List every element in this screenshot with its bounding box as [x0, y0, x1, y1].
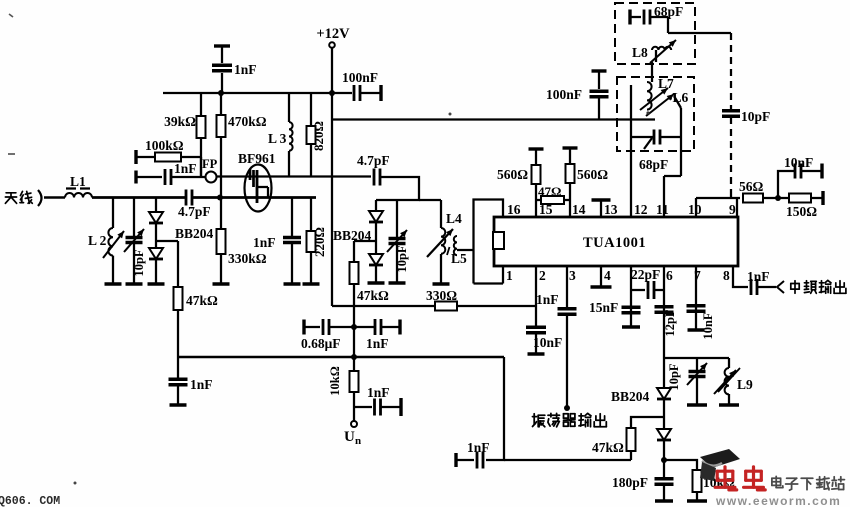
svg-text:BF961: BF961	[238, 151, 276, 166]
svg-text:1nF: 1nF	[536, 292, 559, 307]
svg-text:820Ω: 820Ω	[311, 121, 326, 151]
svg-text:10pF: 10pF	[395, 245, 409, 272]
svg-text:39kΩ: 39kΩ	[164, 114, 196, 129]
svg-text:68pF: 68pF	[639, 157, 668, 172]
svg-text:1nF: 1nF	[366, 336, 389, 351]
svg-text:4.7pF: 4.7pF	[178, 204, 211, 219]
svg-text:10kΩ: 10kΩ	[328, 366, 342, 395]
svg-text:4.7pF: 4.7pF	[357, 153, 390, 168]
svg-text:L4: L4	[446, 211, 462, 226]
svg-text:220Ω: 220Ω	[312, 227, 327, 257]
svg-text:1nF: 1nF	[747, 269, 770, 284]
svg-text:0.68μF: 0.68μF	[301, 336, 341, 351]
svg-text:8: 8	[723, 268, 730, 283]
svg-text:10pF: 10pF	[741, 109, 770, 124]
svg-text:1nF: 1nF	[467, 440, 490, 455]
svg-text:L 2: L 2	[88, 233, 107, 248]
svg-text:180pF: 180pF	[612, 475, 648, 490]
svg-text:BB204: BB204	[611, 389, 650, 404]
svg-text:4: 4	[604, 268, 611, 283]
svg-text:L 3: L 3	[268, 131, 287, 146]
svg-text:100nF: 100nF	[546, 87, 582, 102]
svg-text:9: 9	[729, 202, 736, 217]
svg-text:BB204: BB204	[175, 226, 214, 241]
svg-text:47kΩ: 47kΩ	[592, 440, 624, 455]
svg-text:TUA1001: TUA1001	[583, 235, 646, 251]
svg-text:14: 14	[572, 202, 586, 217]
svg-text:+12V: +12V	[316, 26, 350, 42]
svg-text:47kΩ: 47kΩ	[186, 293, 218, 308]
svg-text:6: 6	[666, 268, 673, 283]
svg-text:12pF: 12pF	[663, 309, 677, 336]
svg-text:2: 2	[539, 268, 546, 283]
svg-text:11: 11	[656, 202, 669, 217]
svg-text:3: 3	[569, 268, 576, 283]
svg-text:Q606. COM: Q606. COM	[0, 495, 60, 507]
svg-text:1nF: 1nF	[367, 385, 390, 400]
svg-text:22pF: 22pF	[631, 267, 660, 282]
svg-text:n: n	[355, 435, 361, 447]
svg-text:L1: L1	[70, 174, 86, 189]
svg-text:10nF: 10nF	[784, 155, 813, 170]
svg-text:1nF: 1nF	[253, 235, 276, 250]
svg-text:10pF: 10pF	[132, 249, 146, 276]
svg-text:1: 1	[506, 268, 513, 283]
svg-text:10nF: 10nF	[701, 312, 715, 339]
svg-text:10nF: 10nF	[533, 335, 562, 350]
svg-text:1nF: 1nF	[190, 377, 213, 392]
svg-text:13: 13	[604, 202, 618, 217]
svg-text:47Ω: 47Ω	[538, 184, 561, 199]
svg-text:L8: L8	[632, 45, 648, 60]
svg-text:560Ω: 560Ω	[577, 167, 608, 182]
svg-text:330Ω: 330Ω	[426, 288, 457, 303]
svg-text:1nF: 1nF	[174, 161, 197, 176]
svg-text:10pF: 10pF	[667, 363, 681, 390]
svg-text:U: U	[344, 429, 355, 445]
svg-text:68pF: 68pF	[654, 4, 683, 19]
svg-text:12: 12	[634, 202, 648, 217]
svg-text:15nF: 15nF	[589, 300, 618, 315]
svg-text:1nF: 1nF	[234, 62, 257, 77]
svg-text:L9: L9	[737, 377, 753, 392]
svg-text:FP: FP	[202, 157, 218, 171]
svg-text:330kΩ: 330kΩ	[228, 251, 267, 266]
svg-text:100nF: 100nF	[342, 70, 378, 85]
svg-text:470kΩ: 470kΩ	[228, 114, 267, 129]
svg-text:100kΩ: 100kΩ	[145, 138, 184, 153]
svg-text:56Ω: 56Ω	[739, 179, 764, 194]
svg-text:560Ω: 560Ω	[497, 167, 528, 182]
svg-text:150Ω: 150Ω	[786, 204, 817, 219]
svg-text:16: 16	[507, 202, 521, 217]
svg-text:www.eeworm.com: www.eeworm.com	[715, 494, 841, 507]
svg-text:47kΩ: 47kΩ	[357, 288, 389, 303]
svg-text:L5: L5	[451, 251, 467, 266]
